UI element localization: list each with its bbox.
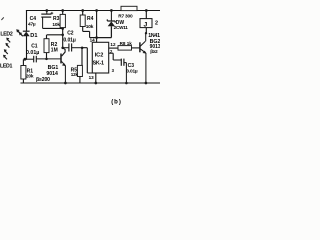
svg-text:J: J	[144, 21, 148, 28]
svg-text:LED1: LED1	[0, 64, 12, 70]
svg-text:D1: D1	[30, 33, 37, 39]
pin 14 wire	[96, 11, 98, 43]
transistor BG2	[140, 33, 146, 83]
resistor R2	[44, 35, 49, 59]
resistor R7	[121, 6, 137, 10]
LED1 symbol (angled marks)	[3, 38, 10, 60]
svg-text:2: 2	[155, 21, 158, 27]
junction node	[94, 82, 97, 85]
svg-text:13: 13	[89, 75, 95, 80]
svg-text:47µ: 47µ	[28, 21, 36, 27]
artifact mark	[1, 17, 3, 20]
junction node (C1/R1/D1)	[24, 58, 27, 61]
capacitor C3	[113, 59, 126, 83]
svg-text:14: 14	[90, 38, 96, 43]
resistor R5	[77, 65, 82, 83]
wire bottom rail	[21, 82, 160, 84]
junction node	[95, 36, 98, 39]
svg-text:9014: 9014	[46, 71, 58, 77]
junction node	[81, 47, 84, 50]
IC U1 IC2	[92, 42, 108, 73]
junction node	[125, 82, 128, 85]
svg-text:0.01µ: 0.01µ	[26, 50, 39, 56]
svg-text:β≥2: β≥2	[150, 49, 158, 54]
wire collector line BG1	[62, 29, 66, 56]
junction node	[45, 9, 48, 12]
svg-text:LED2: LED2	[0, 32, 12, 38]
svg-text:0.01µ: 0.01µ	[63, 37, 76, 43]
capacitor C4	[41, 11, 53, 29]
svg-text:C1: C1	[31, 44, 38, 50]
svg-text:C2: C2	[67, 31, 74, 37]
transistor BG1	[61, 54, 65, 84]
resistor R4	[80, 11, 96, 38]
svg-text:C4: C4	[30, 16, 37, 22]
svg-text:R7 300: R7 300	[118, 14, 133, 20]
wire C2 node to R5	[81, 48, 83, 66]
resistor R1	[21, 59, 26, 83]
pin 13 wire	[95, 73, 97, 83]
wire R2 feedback	[47, 34, 63, 36]
junction node	[61, 27, 64, 30]
svg-text:R4: R4	[87, 16, 94, 22]
svg-text:0.01µ: 0.01µ	[126, 68, 138, 74]
wire C2 node to IC2 bottom	[82, 48, 92, 73]
svg-text:β≥200: β≥200	[36, 77, 50, 83]
svg-text:R8 1k: R8 1k	[120, 41, 133, 46]
svg-text:10k: 10k	[52, 22, 60, 28]
svg-text:10k: 10k	[86, 24, 94, 30]
pin 12 wire	[109, 47, 118, 49]
resistor R3	[60, 11, 65, 29]
junction node	[145, 82, 148, 85]
diode D1	[23, 31, 30, 36]
junction node	[110, 9, 113, 12]
junction node	[61, 9, 64, 12]
junction node	[95, 9, 98, 12]
zener diode DW	[97, 11, 116, 38]
svg-text:(b): (b)	[111, 100, 122, 106]
capacitor C1	[25, 56, 61, 63]
junction node	[61, 47, 64, 50]
resistor R8	[118, 46, 140, 51]
svg-text:SK-1: SK-1	[93, 60, 104, 66]
wire C4/R3 bus	[43, 27, 63, 29]
wire left vertical	[26, 11, 28, 60]
svg-text:12: 12	[110, 42, 116, 47]
svg-text:12k: 12k	[71, 72, 79, 77]
LED2 emission arrows	[16, 29, 23, 36]
junction node	[61, 34, 64, 37]
svg-text:1M: 1M	[51, 48, 58, 54]
junction node	[81, 9, 84, 12]
svg-text:2CW11: 2CW11	[114, 25, 129, 30]
svg-text:20k: 20k	[26, 73, 34, 79]
capacitor C2	[63, 43, 82, 51]
svg-text:IC2: IC2	[95, 53, 104, 59]
relay J	[140, 11, 152, 34]
junction node	[45, 58, 48, 61]
svg-text:R3: R3	[53, 16, 60, 22]
pin 2 wire	[109, 53, 114, 60]
junction node	[145, 9, 148, 12]
junction node	[64, 82, 67, 85]
wire top rail	[27, 10, 161, 12]
svg-text:C3: C3	[128, 63, 135, 69]
junction node	[145, 32, 147, 34]
svg-text:3: 3	[112, 68, 115, 73]
